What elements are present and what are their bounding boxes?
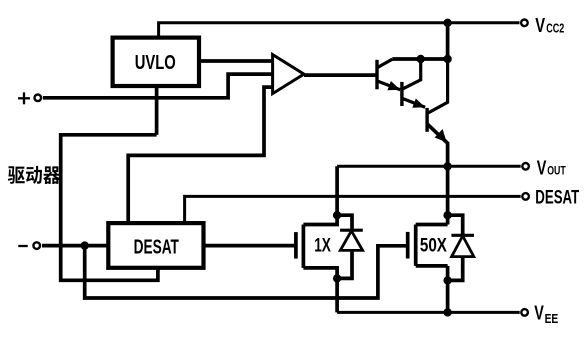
terminal - [33,242,40,249]
wire VEE rail [337,311,520,314]
UVLO block [113,38,199,86]
transistor Q1 collector [377,59,392,68]
svg-text:DESAT: DESAT [134,235,180,258]
MOSFET 1X gate bar [294,232,298,259]
transistor Q2 collector [402,59,421,89]
junction VCC2 rail [443,19,451,27]
diode D2 triangle [452,236,474,257]
wire 50X diode cathode branch [448,215,463,235]
svg-text:1X: 1X [314,234,331,256]
arrowhead Q2 emitter [412,99,425,108]
wire + input net [43,74,273,98]
label VCC2 [535,14,564,37]
arrowhead Q3 emitter [435,129,447,142]
wire 1X diode anode branch [337,250,352,278]
MOSFET 50X channel bar [414,225,418,266]
junction 1X source [333,274,341,282]
wire 50X source lead [416,264,448,268]
diode D1 triangle [340,231,362,251]
junction bus Q2 [417,55,425,63]
label VEE [534,301,558,326]
wire DESAT block to comparator lower input [128,87,272,223]
wire collector bus y59 [392,57,447,61]
diode D1 cathode bar [340,229,363,232]
junction 50X drain [443,211,451,219]
wire UVLO output to comparator [199,59,273,63]
junction minus input [81,241,89,249]
svg-text:UVLO: UVLO [135,51,176,74]
wire DESAT out to 1X gate [204,244,296,248]
wire 1X source to VEE rail [303,268,337,313]
MOSFET 1X channel bar [302,225,306,268]
diode D2 cathode bar [451,234,474,237]
MOSFET 50X gate bar [406,232,410,259]
wire 50X diode anode branch [448,257,463,281]
wire left common loop UVLO to DESAT bottom [61,135,158,280]
svg-text:EE: EE [545,313,559,326]
wire 1X diode cathode branch [337,215,352,230]
comparator U1 buffer triangle [273,55,304,94]
terminal VEE [521,309,528,316]
junction 50X source [443,276,451,284]
transistor Q3 emitter [427,124,448,166]
transistor Q3 collector [427,59,448,114]
wire - input to 50X gate [85,246,408,298]
transistor Q2 emitter [402,98,425,107]
wire - input [42,244,108,248]
DESAT block [108,223,203,268]
label minus sign [18,245,27,247]
svg-text:V: V [535,14,545,37]
label plus sign [18,92,30,104]
wire 50X source vertical [446,266,450,313]
svg-text:CC2: CC2 [546,22,564,36]
wire VOUT rail [337,165,521,168]
junction VOUT rail [443,162,451,170]
wire 1X drain to VOUT rail [303,166,337,224]
svg-text:50X: 50X [420,234,447,256]
transistor Q2 base bar [400,82,403,106]
wire 50X drain lead [416,223,448,227]
label chinese "driver" [8,166,60,184]
terminal DESAT [522,193,529,200]
wire VCC2 drop to transistor bus [446,23,450,59]
terminal VCC2 [521,20,528,27]
junction bus Q3 [443,55,451,63]
wire UVLO bottom pin [155,86,159,135]
svg-text:DESAT: DESAT [535,186,579,208]
terminal + [35,95,42,102]
junction VEE rail [443,308,451,316]
svg-text:OUT: OUT [547,164,566,178]
svg-text:V: V [537,156,547,179]
transistor Q1 base bar [375,60,378,90]
label VOUT [537,156,566,179]
wire comparator output to Q1 base [304,73,377,77]
transistor Q1 emitter [377,81,400,90]
wire VCC2 top rail [159,23,520,38]
wire DESAT pin rail [185,196,521,223]
transistor Q3 base bar [425,108,428,132]
arrowhead Q1 emitter [387,81,400,90]
wire 50X drain vertical [446,166,450,224]
terminal VOUT [522,163,529,170]
junction 1X drain [333,211,341,219]
svg-text:V: V [534,301,544,324]
